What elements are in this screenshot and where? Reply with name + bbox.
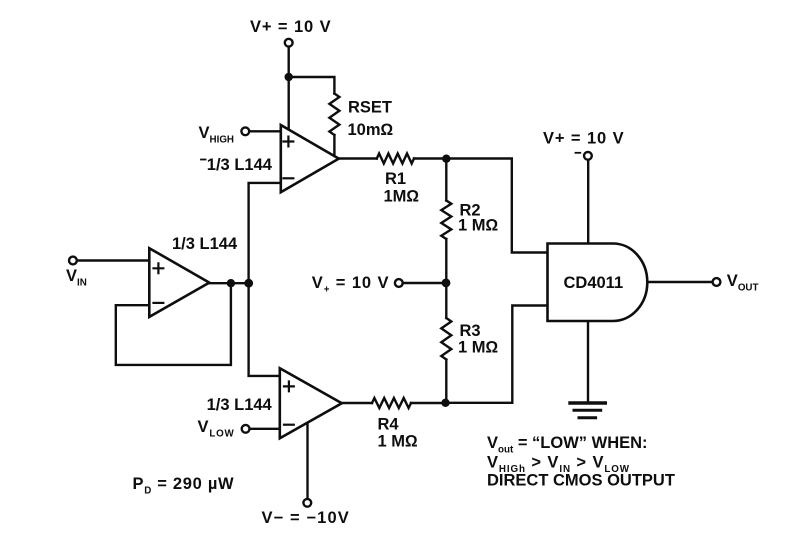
svg-text:1/3 L144: 1/3 L144: [207, 396, 273, 414]
svg-text:V− = −10V: V− = −10V: [262, 509, 350, 527]
svg-text:V+ = 10 V: V+ = 10 V: [543, 129, 625, 147]
svg-text:R1: R1: [385, 170, 406, 188]
svg-text:1/3 L144: 1/3 L144: [172, 235, 238, 253]
svg-text:R4: R4: [378, 416, 400, 434]
svg-text:10mΩ: 10mΩ: [348, 121, 394, 139]
svg-text:DIRECT CMOS OUTPUT: DIRECT CMOS OUTPUT: [487, 472, 675, 490]
svg-text:1 MΩ: 1 MΩ: [458, 216, 499, 234]
svg-text:R3: R3: [460, 322, 481, 340]
svg-text:1MΩ: 1MΩ: [384, 188, 420, 206]
svg-text:1/3 L144: 1/3 L144: [207, 156, 273, 174]
svg-text:CD4011: CD4011: [564, 274, 624, 292]
svg-text:1 MΩ: 1 MΩ: [378, 433, 419, 451]
svg-text:V+ = 10 V: V+ = 10 V: [250, 18, 332, 36]
svg-text:1 MΩ: 1 MΩ: [458, 339, 499, 357]
svg-text:RSET: RSET: [348, 99, 392, 117]
